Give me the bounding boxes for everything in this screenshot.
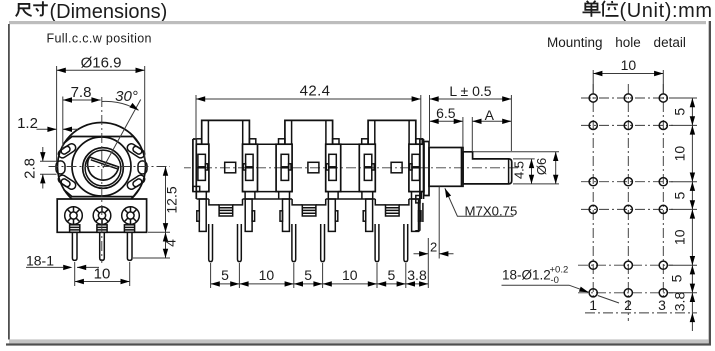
gang 3 [359, 120, 424, 261]
label 18-1 [26, 253, 99, 271]
pin 1 front [72, 232, 77, 260]
dim 6.5 [430, 105, 463, 147]
row centerline 3 [581, 181, 673, 183]
column centerline 2 [627, 84, 629, 321]
pin 2 front [100, 232, 105, 260]
terminal knurl 3 [122, 207, 140, 225]
bottom boundary centerline [585, 312, 697, 314]
shaft outer circle [83, 148, 124, 189]
grid right extension lines [669, 98, 697, 293]
row centerline 1 [581, 97, 673, 99]
gang1 left side patch: end plate [191, 138, 196, 201]
inter-gang connecting lines [258, 144, 360, 191]
column centerline 3 [662, 84, 664, 299]
svg-text:12.5: 12.5 [164, 186, 180, 213]
svg-text:10: 10 [672, 146, 688, 162]
right end foot [416, 196, 420, 203]
terminal knurl 1 [65, 207, 83, 225]
dim 30deg arc [102, 88, 140, 113]
svg-text:42.4: 42.4 [300, 82, 331, 99]
frame left dark line [8, 24, 10, 340]
svg-text:+0.2: +0.2 [550, 265, 569, 276]
svg-text:Mounting hole detail: Mounting hole detail [547, 35, 686, 50]
svg-text:A: A [485, 107, 495, 123]
dim dia6 [473, 152, 559, 184]
label 18-dia1.2 [502, 265, 620, 304]
label M7X0.75 [442, 187, 517, 218]
dim L+-0.5 [421, 83, 512, 151]
row centerline 2 [581, 124, 673, 126]
svg-text:1.2: 1.2 [17, 115, 38, 132]
shaft mid circle [85, 150, 121, 186]
svg-text:30°: 30° [115, 88, 138, 105]
right mid oval [138, 161, 147, 174]
grid right chain dims [669, 98, 696, 331]
left mid oval [56, 161, 65, 174]
right end plate leg [415, 203, 423, 231]
svg-text:18-1: 18-1 [26, 253, 54, 269]
title 单 glyph [583, 1, 601, 17]
frame bottom dark shadow line [6, 343, 711, 345]
svg-text:4: 4 [163, 239, 179, 247]
title 尺 glyph [16, 4, 32, 16]
ear bottom-right slot [132, 178, 143, 188]
column centerline 1 [592, 84, 594, 299]
svg-text:5: 5 [221, 267, 229, 283]
dim 2.8 [22, 147, 57, 189]
svg-text:2: 2 [624, 297, 632, 313]
dim dia16.9 [57, 54, 145, 163]
body ring circle [72, 137, 131, 196]
threaded bushing [429, 148, 463, 187]
row centerline 4 [581, 208, 673, 210]
dim 4 [133, 232, 179, 258]
gang 2 [276, 120, 341, 261]
bottom chord [64, 189, 139, 197]
ear top-left slot [60, 145, 71, 155]
ear bottom-right outline [126, 174, 146, 191]
front view base rectangle [57, 199, 146, 232]
svg-text:2: 2 [430, 240, 437, 255]
shaft D profile [88, 157, 119, 180]
collar 1 [70, 225, 80, 233]
svg-text:(Dimensions): (Dimensions) [50, 1, 168, 23]
dim 7.8 [63, 84, 101, 150]
hole circles [589, 94, 667, 297]
svg-text:7.8: 7.8 [71, 84, 92, 101]
svg-text:6.5: 6.5 [436, 105, 456, 121]
svg-text:(Unit):mm: (Unit):mm [620, 0, 713, 22]
svg-text:10: 10 [342, 267, 358, 283]
shaft chamfer line [508, 159, 510, 184]
left end foot [193, 186, 200, 191]
svg-text:2.8: 2.8 [22, 158, 39, 179]
gang 1 [193, 120, 258, 261]
svg-text:Full.c.c.w position: Full.c.c.w position [47, 32, 152, 46]
svg-text:5: 5 [669, 274, 685, 282]
front horizontal centerline [49, 166, 171, 168]
svg-text:5: 5 [304, 267, 312, 283]
svg-text:10: 10 [672, 229, 688, 245]
svg-text:Ø16.9: Ø16.9 [81, 54, 122, 71]
front vertical centerline [101, 97, 103, 263]
title 位 glyph [602, 1, 618, 17]
svg-text:3.8: 3.8 [672, 292, 688, 312]
row centerline 5 [578, 264, 673, 266]
dim 2 [414, 187, 454, 289]
ear bottom-left slot [60, 178, 71, 188]
svg-text:10: 10 [621, 57, 637, 73]
shaft with flat [463, 152, 512, 184]
svg-text:18-Ø1.2: 18-Ø1.2 [502, 268, 551, 283]
svg-text:10: 10 [94, 265, 111, 282]
dim 1.2 [17, 115, 78, 132]
side view centerline [184, 167, 523, 169]
svg-text:M7X0.75: M7X0.75 [465, 203, 518, 218]
frame top silver bar [9, 21, 706, 24]
dim A [472, 107, 511, 152]
dim 4.5 [512, 159, 560, 184]
frame right dark line [709, 21, 711, 346]
top chord [64, 137, 139, 145]
svg-text:5: 5 [388, 267, 396, 283]
row centerline 6 [578, 292, 673, 294]
base plate line [197, 198, 421, 200]
title 寸 glyph [33, 1, 48, 15]
svg-text:5: 5 [672, 108, 688, 116]
svg-text:4.5: 4.5 [512, 161, 527, 179]
terminal knurl 2 [93, 207, 111, 225]
svg-text:1: 1 [589, 297, 597, 313]
ear top-right outline [126, 142, 146, 159]
collar 2 [97, 225, 107, 233]
bushing flange [424, 142, 429, 196]
svg-text:L ± 0.5: L ± 0.5 [449, 83, 491, 99]
svg-text:10: 10 [259, 267, 275, 283]
svg-text:3.8: 3.8 [407, 267, 427, 283]
frame bottom silver bar [9, 339, 709, 343]
ear bottom-left outline [57, 174, 77, 191]
dim 10 grid [593, 57, 663, 93]
svg-text:Ø6: Ø6 [534, 158, 549, 175]
svg-text:3: 3 [658, 297, 666, 313]
dim 42.4 [196, 82, 421, 143]
dim 10 front [75, 262, 130, 286]
svg-text:5: 5 [672, 191, 688, 199]
collar 3 [124, 225, 134, 233]
body outer circle arc [57, 123, 145, 199]
dim 12.5 [148, 167, 180, 233]
svg-text:-0: -0 [551, 275, 559, 286]
side bottom chain dims [211, 263, 429, 288]
ear top-left outline [57, 142, 77, 159]
rotor pointer line 30deg [103, 100, 141, 169]
ear top-right slot [132, 145, 143, 155]
pin 3 front [127, 232, 132, 260]
